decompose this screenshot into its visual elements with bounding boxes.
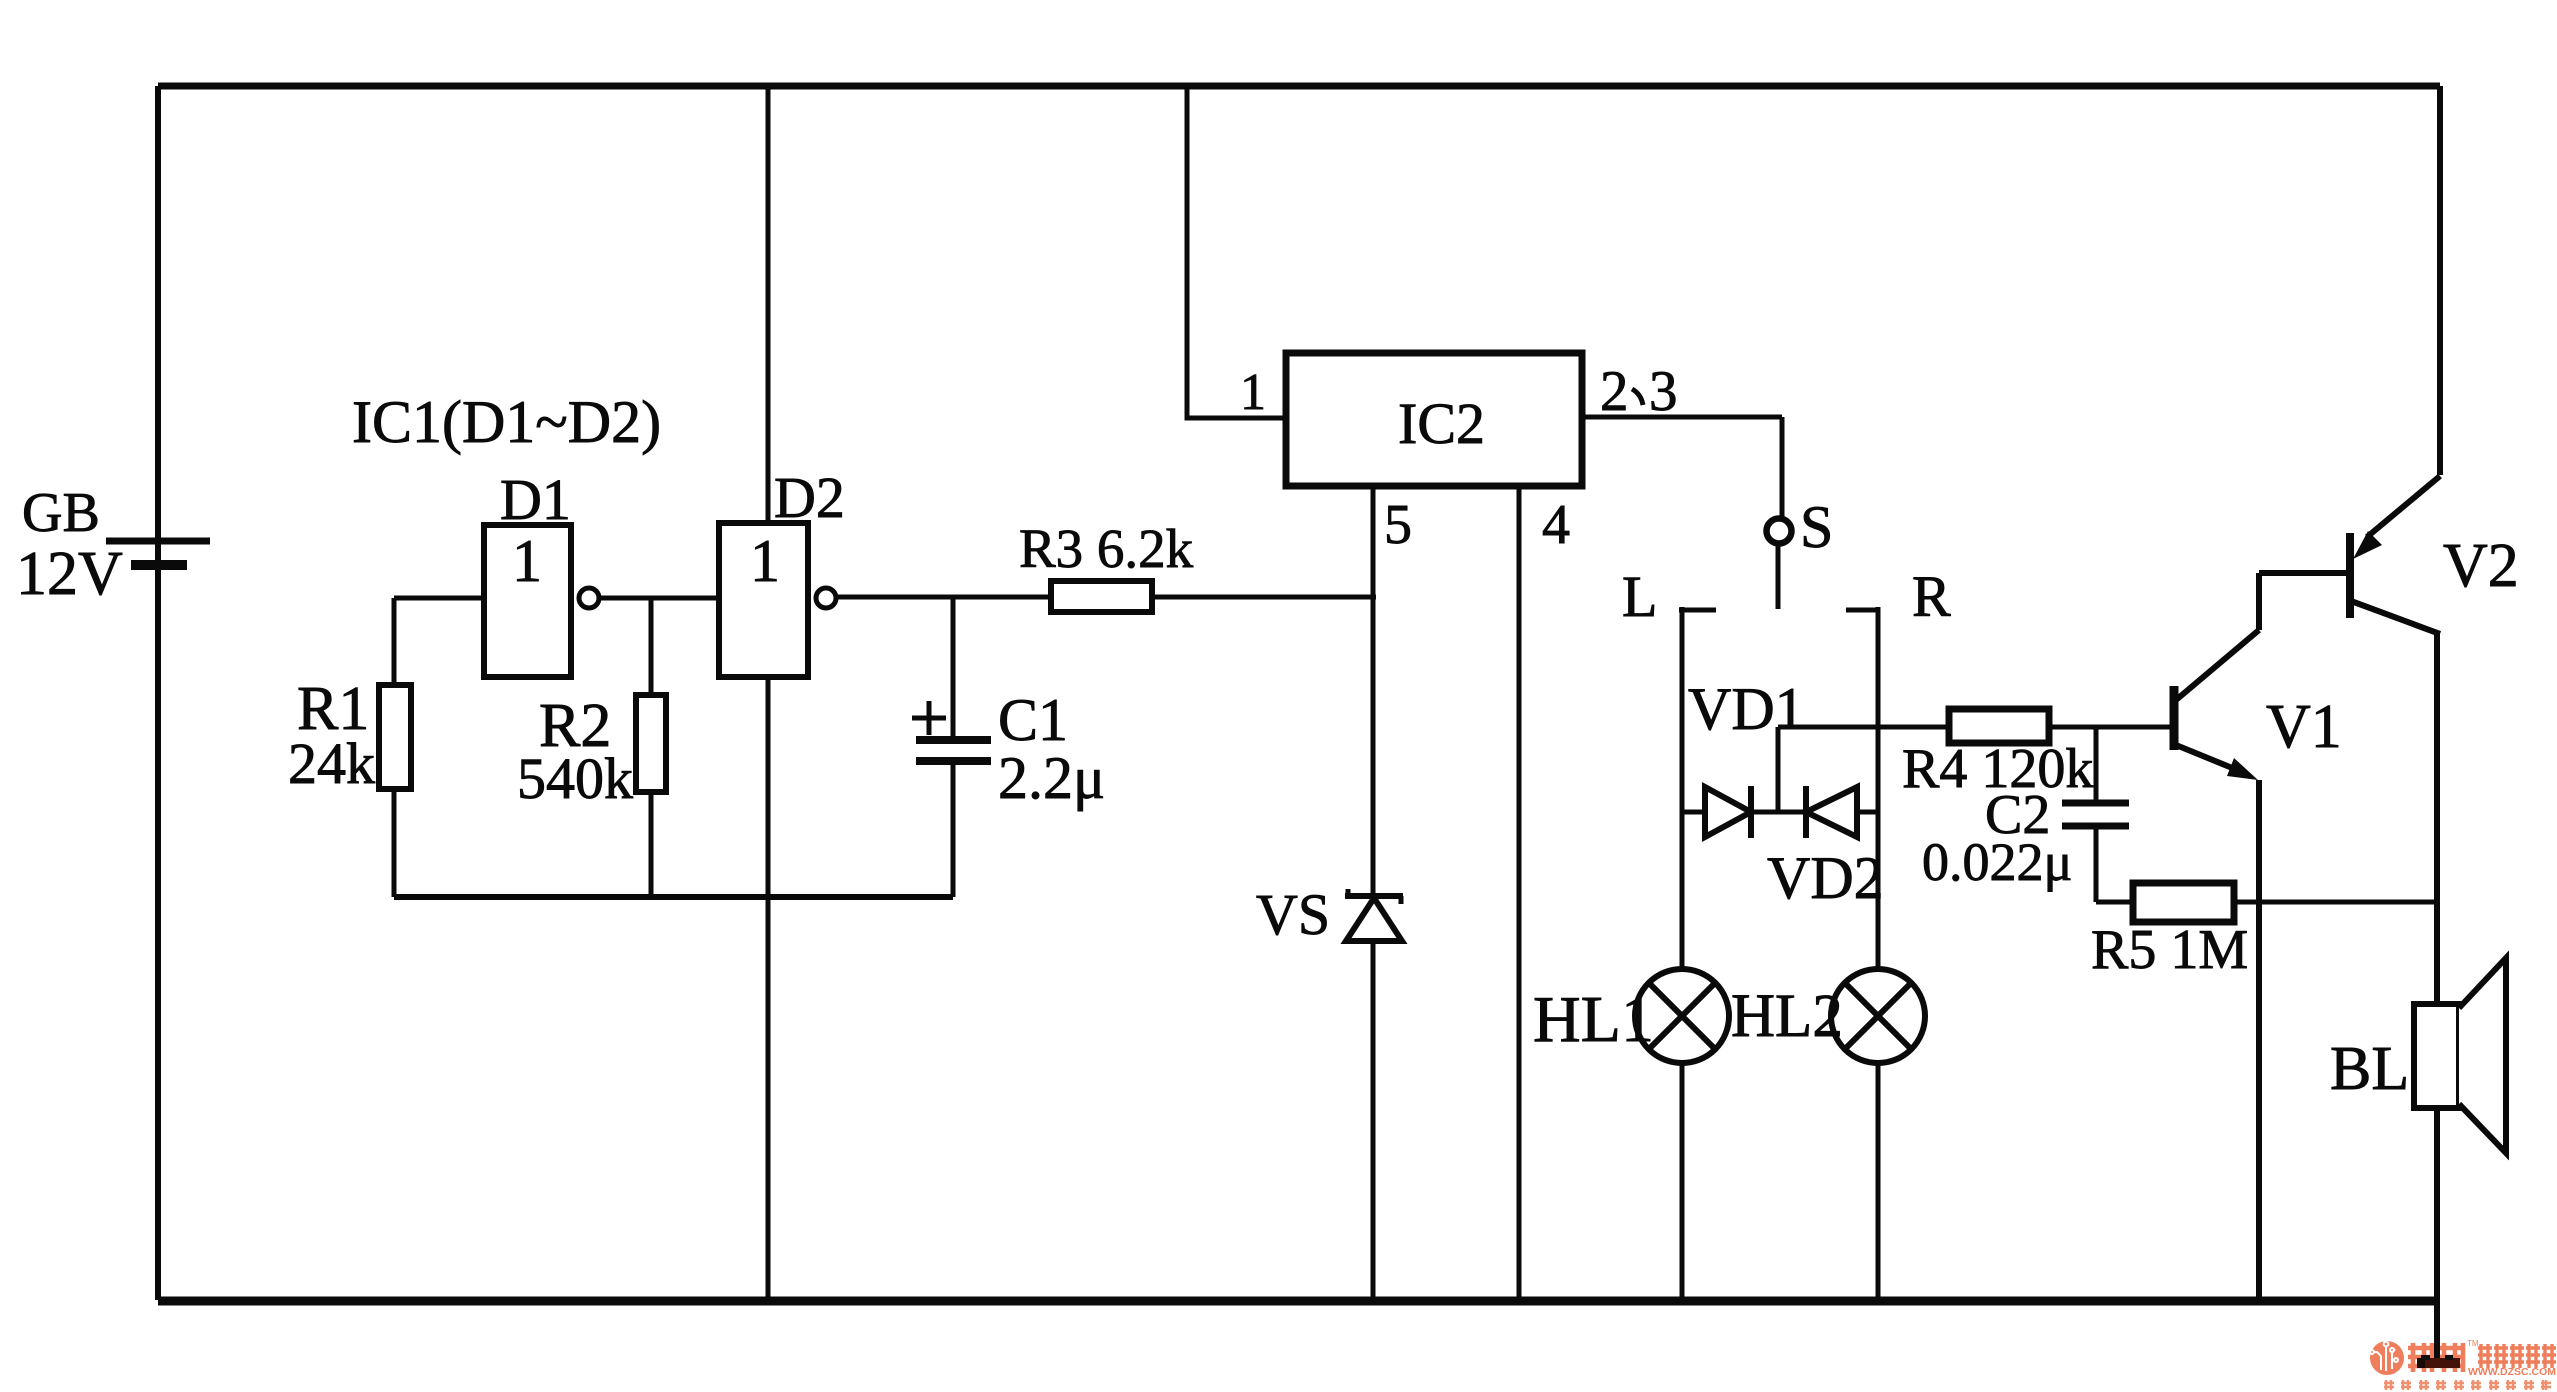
svg-text:WWW.DZSC.COM: WWW.DZSC.COM — [2468, 1367, 2556, 1378]
svg-text:HL1: HL1 — [1533, 983, 1654, 1056]
bubble D1 output — [579, 588, 599, 608]
zener diode VS — [1345, 889, 1403, 941]
resistor R1 — [379, 685, 411, 789]
wire between cathodes — [1751, 810, 1806, 815]
wire riser to R4 — [1778, 725, 1949, 730]
resistor R2 — [636, 695, 666, 792]
wire R3 to pin5 line — [1152, 595, 1376, 600]
wire left bus (battery branch) — [155, 86, 161, 1300]
battery GB — [106, 541, 210, 565]
wire D2 output to R3 — [836, 595, 1051, 600]
svg-text:540k: 540k — [517, 746, 633, 811]
wire D1 output to D2 input — [599, 596, 719, 601]
wire diode rail left — [1682, 810, 1705, 815]
resistor R3 — [1051, 581, 1152, 612]
svg-text:12V: 12V — [16, 540, 123, 608]
svg-text:4: 4 — [1542, 494, 1570, 556]
svg-text:24k: 24k — [288, 731, 375, 796]
wire IC2 pins 2,3 — [1582, 415, 1782, 420]
switch contact R — [1846, 607, 1878, 969]
resistor R5 — [2133, 883, 2234, 922]
wire BL lead into ground bar — [2434, 1340, 2440, 1360]
svg-text:L: L — [1622, 564, 1657, 629]
wire D1 input — [394, 596, 484, 601]
wire R1 top lead — [392, 598, 397, 685]
wire HL2 bottom lead — [1876, 1063, 1881, 1301]
svg-text:2.2μ: 2.2μ — [998, 745, 1105, 811]
svg-text:IC1(D1~D2): IC1(D1~D2) — [352, 389, 661, 455]
wire right bus top drop to V2 emitter — [2437, 86, 2443, 475]
svg-text:C1: C1 — [998, 687, 1068, 753]
svg-text:1: 1 — [750, 528, 780, 594]
node C1 top junction — [951, 597, 956, 737]
svg-text:3: 3 — [1649, 360, 1678, 423]
wire IC2 pin 1 — [1187, 86, 1286, 418]
watermark dzsc logo — [2370, 1341, 2404, 1375]
svg-text:IC2: IC2 — [1398, 391, 1485, 456]
svg-text:D2: D2 — [774, 465, 845, 530]
svg-text:BL: BL — [2330, 1035, 2409, 1103]
wire R1 bottom lead — [392, 789, 397, 897]
svg-text:2: 2 — [1600, 360, 1629, 423]
wire top supply bus — [158, 83, 2440, 90]
switch contact L — [1679, 607, 1716, 969]
svg-text:V2: V2 — [2443, 532, 2519, 600]
label pins 2,3 — [1600, 360, 1678, 423]
svg-text:GB: GB — [22, 482, 100, 544]
ground bar (negative terminal) — [2417, 1358, 2460, 1368]
svg-text:S: S — [1800, 494, 1833, 560]
lamp HL1 — [1635, 969, 1729, 1063]
wire oscillator bottom rail — [394, 894, 953, 900]
inverter D2 — [719, 523, 808, 677]
watermark chars dianzishichangwang — [2478, 1344, 2556, 1368]
svg-text:R: R — [1912, 564, 1951, 629]
watermark char ku — [2440, 1343, 2465, 1372]
lamp HL2 — [1831, 969, 1925, 1063]
svg-text:TM: TM — [2467, 1339, 2479, 1348]
svg-text:R5 1M: R5 1M — [2091, 919, 2248, 981]
transistor V2 — [2350, 476, 2440, 1004]
svg-text:1: 1 — [1240, 364, 1266, 421]
capacitor C1 — [916, 740, 991, 897]
polarity + (C1) — [912, 701, 946, 735]
wire R2 bottom lead — [649, 792, 654, 897]
svg-text:0.022μ: 0.022μ — [1922, 832, 2072, 892]
wire diode junction riser — [1776, 727, 1781, 812]
svg-text:VD1: VD1 — [1688, 676, 1805, 742]
wire R2 top lead — [649, 598, 654, 695]
IC U-IC2 — [1286, 353, 1582, 486]
svg-text:D1: D1 — [500, 467, 571, 532]
svg-text:1: 1 — [512, 528, 542, 594]
capacitor C2 — [2062, 727, 2133, 902]
diode VD1 — [1705, 786, 1751, 838]
svg-text:R3 6.2k: R3 6.2k — [1019, 518, 1194, 579]
wire IC2 pin 5 drop — [1371, 486, 1376, 1301]
svg-text:VD2: VD2 — [1767, 845, 1884, 911]
wire HL1 bottom lead — [1680, 1063, 1685, 1301]
watermark slogan chars — [2384, 1380, 2551, 1390]
svg-text:HL2: HL2 — [1731, 983, 1843, 1050]
wire R5 to V2 collector line — [2234, 900, 2438, 905]
wire diode rail right — [1857, 810, 1878, 815]
svg-text:5: 5 — [1384, 494, 1412, 556]
speaker BL — [2414, 958, 2506, 1153]
wire IC2 pin 4 drop — [1517, 486, 1522, 1301]
bubble D2 output — [816, 588, 836, 608]
svg-text:VS: VS — [1256, 882, 1330, 947]
wire D2 top supply drop — [766, 86, 771, 523]
switch S — [1767, 417, 1792, 609]
wire BL bottom lead — [2434, 1108, 2440, 1352]
svg-text:V1: V1 — [2266, 693, 2342, 761]
wire R4 to V1 base — [2049, 725, 2170, 730]
wire bottom ground bus — [158, 1297, 2437, 1306]
diode VD2 — [1806, 786, 1857, 838]
transistor V1 — [2174, 573, 2347, 1301]
watermark char wei — [2408, 1343, 2434, 1372]
resistor R4 — [1949, 709, 2049, 743]
inverter D1 — [484, 525, 571, 677]
wire D2 bottom drop to ground bus — [766, 677, 771, 1301]
